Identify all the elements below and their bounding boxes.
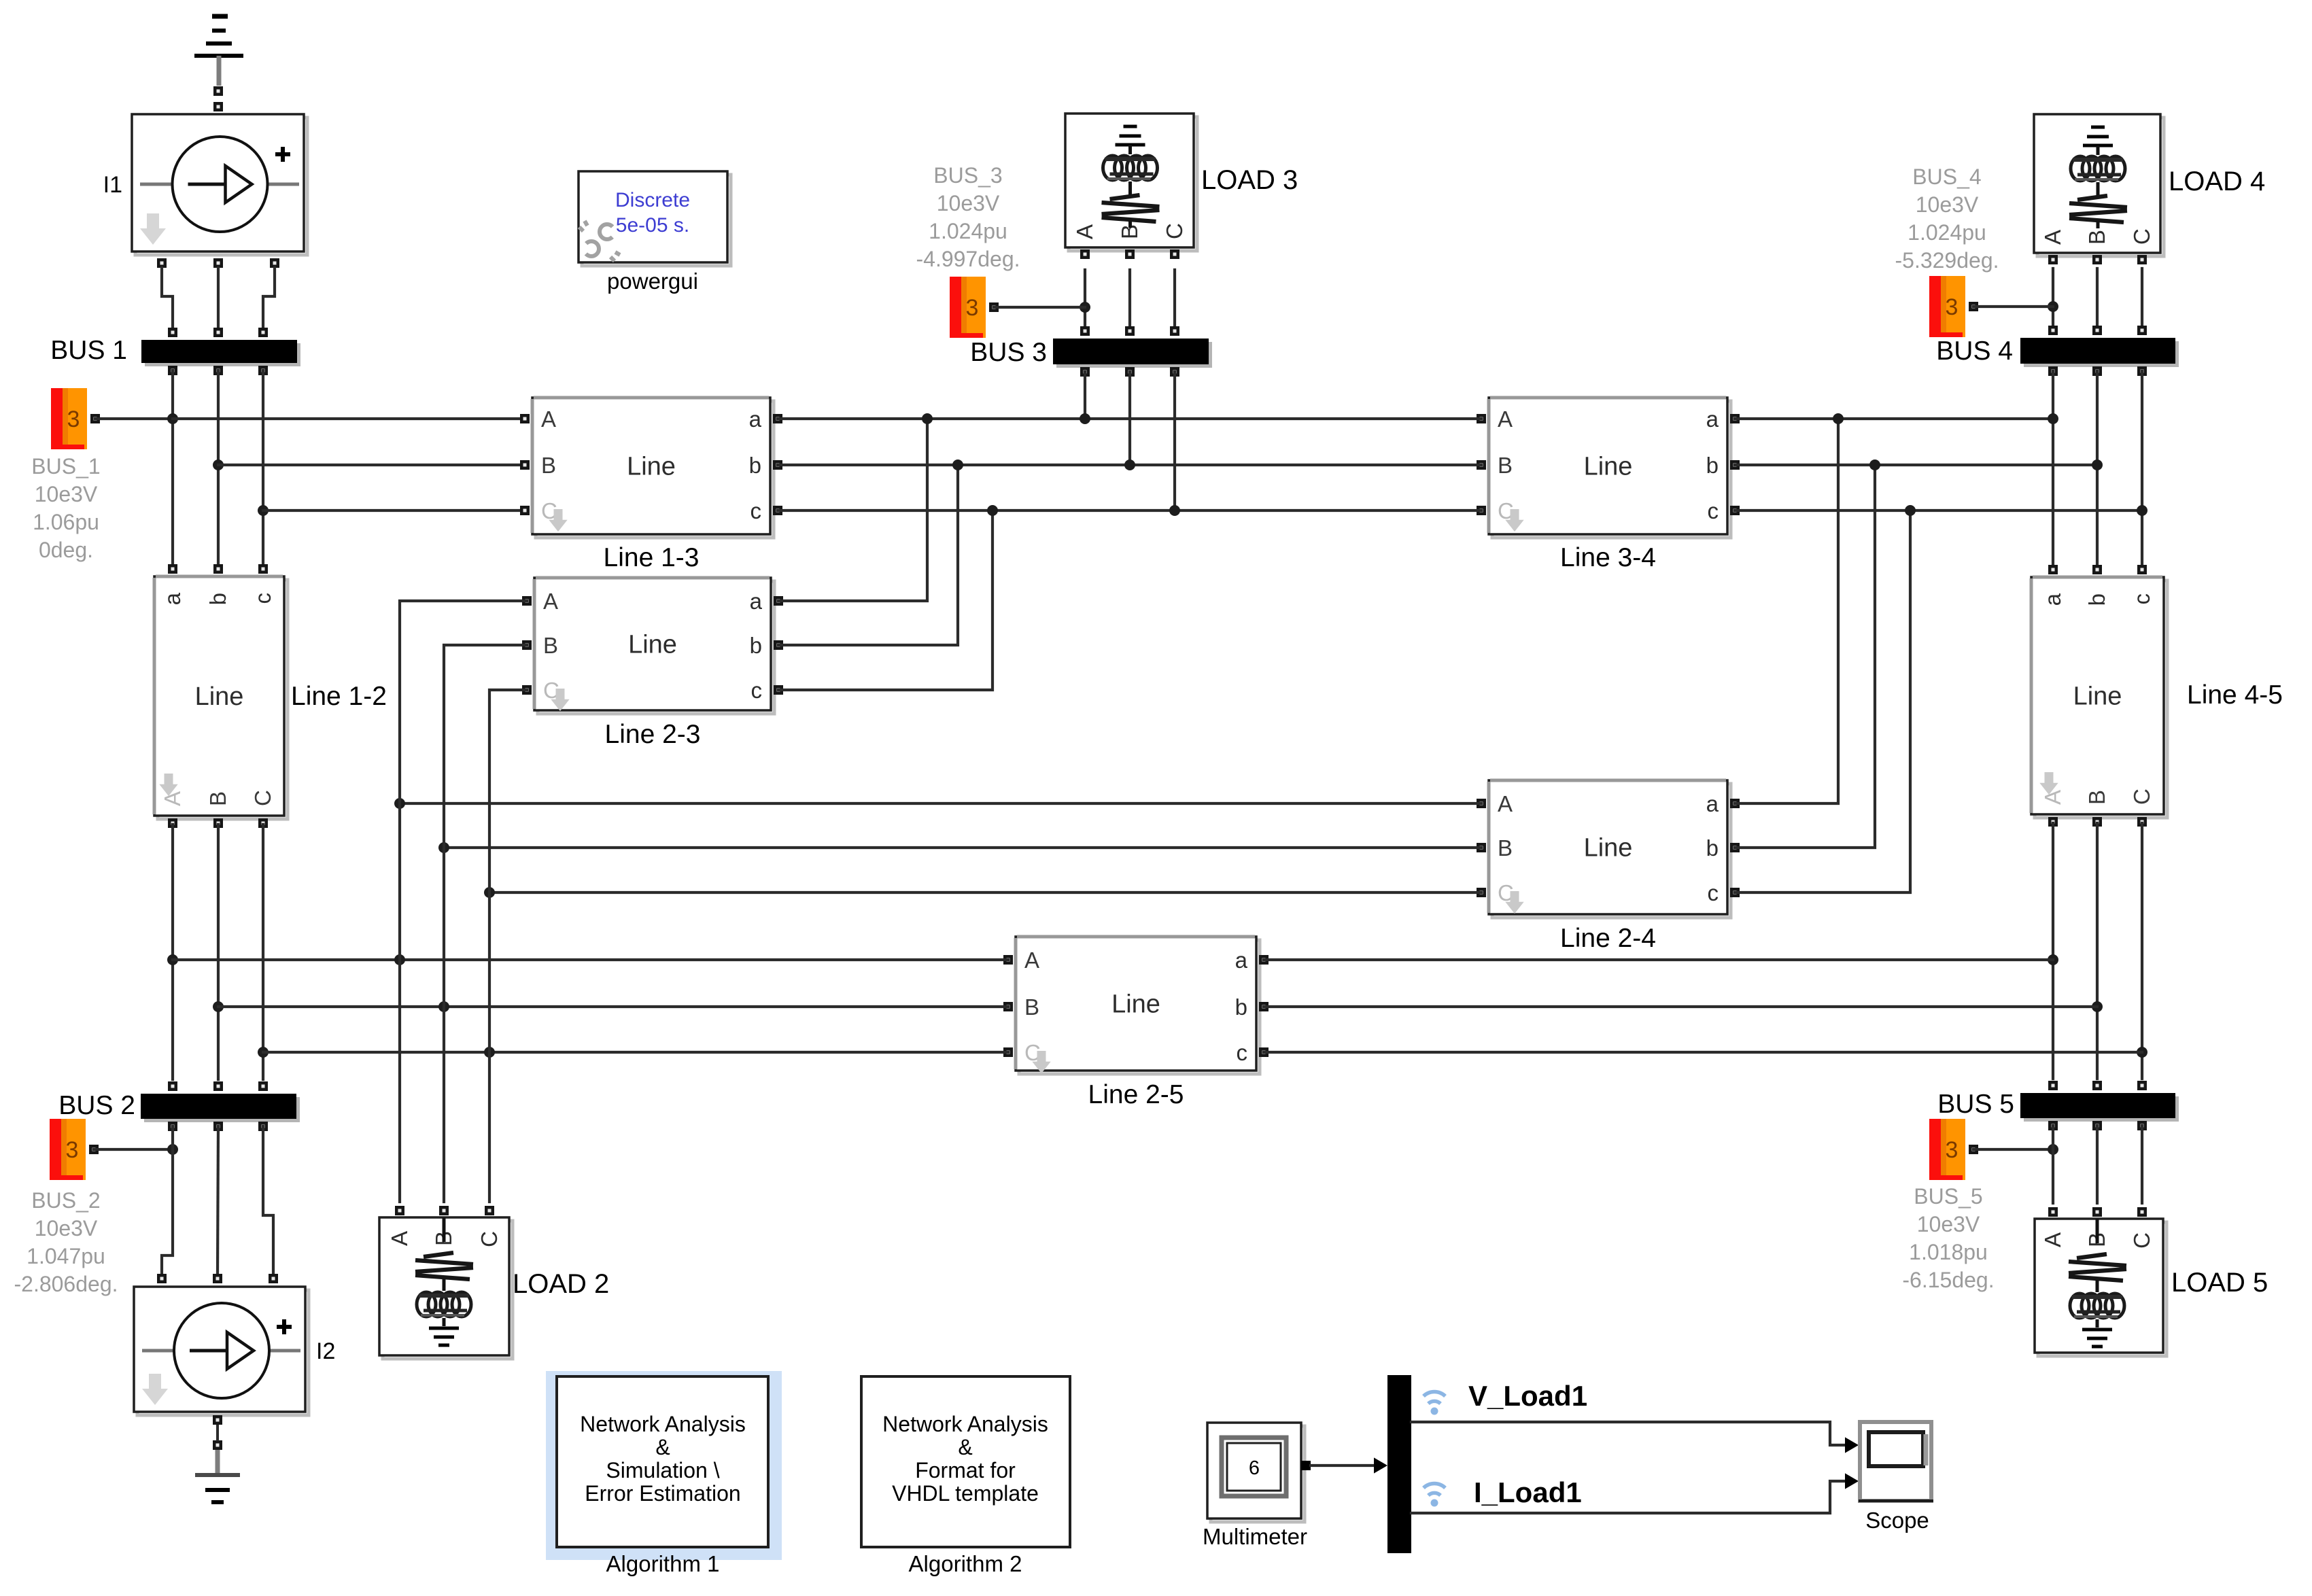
measurement tag 3 BUS_2 — [50, 1119, 99, 1180]
svg-text:C: C — [2129, 228, 2154, 245]
wire Line1-2 A column to BUS 2 — [167, 825, 178, 1079]
wire I1 phase C to BUS 1 — [263, 268, 275, 332]
svg-text:BUS_4: BUS_4 — [1912, 164, 1981, 189]
svg-text:-2.806deg.: -2.806deg. — [14, 1272, 118, 1296]
svg-text:Algorithm 1: Algorithm 1 — [606, 1551, 720, 1576]
wire tag BUS_4 to phase A — [1973, 305, 2053, 308]
svg-text:A: A — [1498, 406, 1513, 432]
wire row B2: feeder to Line 2-4 B — [438, 842, 1481, 853]
svg-text:LOAD 3: LOAD 3 — [1201, 165, 1298, 195]
svg-text:A: A — [160, 791, 185, 806]
svg-text:A: A — [2040, 790, 2065, 805]
svg-text:-5.329deg.: -5.329deg. — [1895, 248, 1999, 273]
demux bar — [1387, 1375, 1411, 1553]
svg-text:c: c — [1708, 498, 1719, 523]
wire row B3: BUS2 column to Line 2-5 B — [218, 1001, 1008, 1012]
svg-text:A: A — [1072, 224, 1097, 239]
wire Line4-5 B column to BUS 5 — [2092, 823, 2103, 1079]
svg-text:B: B — [1498, 453, 1513, 478]
wire I_Load1 to Scope — [1411, 1473, 1859, 1513]
wire row C3: BUS2 column to Line 2-5 C — [263, 1047, 1008, 1058]
transmission line block Line 1-3 — [520, 398, 782, 572]
svg-text:A: A — [2040, 1232, 2065, 1247]
wire LOAD3 A to BUS 3 — [1080, 270, 1090, 328]
svg-text:Line: Line — [1584, 453, 1633, 481]
wire row c: Line 1-3 c to Line 3-4 C — [778, 509, 1481, 512]
svg-text:A: A — [541, 406, 556, 432]
svg-text:Error Estimation: Error Estimation — [585, 1481, 740, 1506]
wire row A3: BUS2 column to Line 2-5 A — [173, 954, 1008, 965]
wire BUS3 b drop to row b — [1124, 372, 1135, 470]
svg-text:b: b — [205, 593, 230, 605]
wire tag BUS_3 to phase A — [994, 306, 1085, 309]
svg-text:3: 3 — [1946, 1137, 1959, 1163]
wire feeder C: Line2-3 C down to LOAD 2 — [489, 690, 527, 1202]
wire row c: Line 3-4 c to BUS4 column — [1735, 509, 2142, 512]
wire BUS2 phase B to source I2 — [218, 1126, 218, 1274]
svg-text:LOAD 5: LOAD 5 — [2171, 1268, 2268, 1298]
wire Line 2-4 c riser to row c — [1735, 505, 1916, 892]
svg-text:Discrete: Discrete — [615, 189, 690, 211]
svg-text:3: 3 — [67, 406, 80, 432]
wire row C: BUS1 to Line 1-3 C — [263, 509, 525, 512]
svg-text:Network Analysis: Network Analysis — [882, 1412, 1048, 1436]
Multimeter block — [1203, 1423, 1311, 1549]
transmission line block Line 4-5 (vertical) — [2031, 565, 2283, 827]
svg-text:-6.15deg.: -6.15deg. — [1902, 1268, 1994, 1292]
svg-text:C: C — [2129, 1232, 2154, 1249]
svg-text:c: c — [1237, 1040, 1248, 1065]
wire V_Load1 to Scope — [1411, 1422, 1859, 1453]
wire row b: Line 1-3 b to Line 3-4 B — [778, 464, 1481, 466]
measurement tag 3 BUS_4 — [1929, 276, 1978, 337]
svg-text:Line 3-4: Line 3-4 — [1560, 543, 1656, 572]
wire BUS4 a column to Line 4-5 — [2048, 371, 2058, 570]
svg-text:b: b — [1235, 994, 1247, 1020]
svg-text:Line: Line — [1584, 834, 1633, 863]
bus bar BUS 4 — [1936, 326, 2179, 376]
wire Line1-2 C column to BUS 2 — [258, 825, 269, 1079]
svg-text:a: a — [1706, 406, 1719, 432]
bus bar BUS 2 — [58, 1081, 300, 1131]
powergui block — [579, 171, 731, 294]
wire LOAD4 A to BUS 4 — [2048, 268, 2058, 328]
svg-text:Format for: Format for — [915, 1458, 1016, 1482]
transmission line block Line 1-2 (vertical) — [154, 564, 387, 828]
wire row A2: feeder to Line 2-4 A — [394, 798, 1481, 809]
svg-text:C: C — [250, 790, 275, 806]
wire I1 phase B to BUS 1 — [217, 268, 220, 332]
svg-text:V_Load1: V_Load1 — [1468, 1380, 1587, 1412]
svg-text:Line: Line — [627, 453, 676, 481]
svg-text:&: & — [958, 1435, 972, 1459]
wire BUS2 phase C to source I2 — [263, 1126, 273, 1274]
svg-text:Line: Line — [628, 631, 677, 659]
svg-text:-4.997deg.: -4.997deg. — [916, 247, 1020, 271]
svg-text:A: A — [1024, 948, 1039, 973]
svg-text:b: b — [2084, 593, 2109, 606]
wire Multimeter to demux — [1311, 1457, 1387, 1473]
wire BUS2 phase A to source I2 — [162, 1126, 173, 1274]
wire row B: BUS1 to Line 1-3 B — [218, 464, 525, 466]
svg-text:A: A — [2040, 230, 2065, 245]
wire Line 2-3 c riser to row c — [778, 505, 998, 690]
svg-text:3: 3 — [66, 1137, 79, 1163]
svg-text:b: b — [750, 633, 762, 658]
label BUS_5 voltage readout — [1902, 1184, 1994, 1292]
svg-text:BUS 1: BUS 1 — [50, 336, 127, 365]
svg-text:10e3V: 10e3V — [1917, 1212, 1980, 1236]
wire LOAD4 B to BUS 4 — [2096, 268, 2099, 328]
svg-text:Line: Line — [195, 682, 244, 711]
svg-text:Algorithm 2: Algorithm 2 — [909, 1551, 1022, 1576]
svg-text:1.024pu: 1.024pu — [929, 219, 1007, 243]
svg-text:LOAD 2: LOAD 2 — [513, 1269, 609, 1299]
svg-text:Line 2-4: Line 2-4 — [1560, 924, 1656, 953]
svg-text:C: C — [477, 1231, 502, 1247]
wire BUS1 phase c column — [262, 370, 264, 569]
transmission line block Line 2-5 — [1003, 937, 1269, 1109]
load block LOAD 3 — [1065, 114, 1298, 259]
svg-text:BUS_2: BUS_2 — [31, 1188, 100, 1213]
wire Line4-5 A column to BUS 5 — [2048, 823, 2058, 1079]
wire Line 2-5 b output to BUS5 column — [1264, 1005, 2097, 1008]
svg-text:I_Load1: I_Load1 — [1474, 1476, 1582, 1508]
svg-text:10e3V: 10e3V — [35, 1216, 98, 1241]
svg-text:a: a — [1706, 791, 1719, 816]
wire LOAD3 B to BUS 3 — [1128, 270, 1131, 328]
measurement tag 3 BUS_3 — [950, 277, 999, 338]
wire Line 2-3 b riser to row b — [778, 459, 963, 645]
svg-text:1.018pu: 1.018pu — [1909, 1240, 1988, 1264]
AC current source I1 — [103, 114, 307, 268]
wire row a: Line 3-4 a to BUS4 column — [1735, 417, 2053, 420]
svg-text:a: a — [1235, 948, 1248, 973]
svg-text:Network Analysis: Network Analysis — [580, 1412, 746, 1436]
svg-text:Line 2-3: Line 2-3 — [605, 720, 701, 749]
label I_Load1 — [1474, 1476, 1582, 1508]
svg-text:I1: I1 — [103, 172, 122, 198]
annotation block Algorithm 2 — [861, 1376, 1070, 1576]
svg-text:BUS 4: BUS 4 — [1936, 336, 2013, 366]
svg-text:10e3V: 10e3V — [1916, 192, 1979, 217]
svg-text:b: b — [1706, 835, 1719, 861]
svg-text:Line: Line — [2073, 682, 2122, 711]
svg-text:LOAD 4: LOAD 4 — [2169, 167, 2265, 196]
svg-text:c: c — [2129, 593, 2154, 605]
wire BUS4 b column to Line 4-5 — [2092, 371, 2103, 570]
svg-text:&: & — [655, 1435, 670, 1459]
bus bar BUS 5 — [1937, 1081, 2179, 1130]
svg-text:Simulation \: Simulation \ — [606, 1458, 719, 1482]
measurement tag 3 BUS_5 — [1929, 1119, 1978, 1180]
wire LOAD4 C to BUS 4 — [2141, 268, 2143, 328]
svg-text:powergui: powergui — [607, 268, 698, 294]
bus bar BUS 3 — [970, 326, 1212, 377]
svg-text:Line 2-5: Line 2-5 — [1088, 1080, 1184, 1109]
wire BUS1 phase a column — [171, 370, 174, 569]
label BUS_2 voltage readout — [14, 1188, 118, 1296]
svg-text:BUS_3: BUS_3 — [933, 163, 1002, 188]
svg-text:1.06pu: 1.06pu — [33, 510, 99, 534]
svg-text:BUS 5: BUS 5 — [1937, 1090, 2014, 1119]
wire Line 2-4 a riser to row a — [1735, 413, 1844, 803]
svg-text:b: b — [749, 453, 761, 478]
wire Line1-2 B column to BUS 2 — [213, 825, 224, 1079]
label BUS_3 voltage readout — [916, 163, 1020, 271]
svg-text:1.047pu: 1.047pu — [27, 1244, 105, 1268]
transmission line block Line 3-4 — [1477, 398, 1740, 572]
svg-text:BUS 3: BUS 3 — [970, 338, 1047, 367]
svg-text:a: a — [160, 592, 185, 605]
svg-text:B: B — [2084, 230, 2109, 245]
wire BUS5 phase B to LOAD 5 — [2096, 1126, 2099, 1203]
node A1 junction — [167, 413, 178, 424]
annotation block Algorithm 1 (selected) — [546, 1371, 782, 1576]
svg-text:c: c — [250, 593, 275, 604]
wire row C2: feeder to Line 2-4 C — [484, 887, 1481, 898]
wire LOAD3 C to BUS 3 — [1173, 270, 1176, 328]
svg-text:a: a — [2040, 593, 2065, 606]
svg-text:0deg.: 0deg. — [39, 538, 93, 562]
svg-text:Scope: Scope — [1865, 1508, 1929, 1533]
wire feeder A: Line2-3 A down to LOAD 2 — [400, 601, 527, 1202]
wire Line 2-5 a output to BUS5 column — [1264, 958, 2053, 961]
wire row A: BUS1 to Line 1-3 A — [173, 417, 525, 420]
wire Line 2-4 b riser to row b — [1735, 459, 1880, 848]
wire tag BUS_2 to phase A — [94, 1144, 178, 1155]
svg-text:10e3V: 10e3V — [937, 191, 1000, 215]
wire I1 phase A to BUS 1 — [162, 268, 173, 332]
wire BUS4 c column to Line 4-5 — [2137, 371, 2147, 570]
svg-text:Line: Line — [1111, 990, 1160, 1019]
wire Line 2-5 c output to BUS5 column — [1264, 1051, 2142, 1054]
ground G1 above source I1 — [194, 16, 243, 111]
wifi tag icon V_Load1 — [1424, 1392, 1445, 1415]
svg-text:A: A — [543, 589, 558, 614]
svg-text:3: 3 — [1946, 294, 1959, 320]
svg-text:10e3V: 10e3V — [35, 482, 98, 506]
svg-text:Line 1-3: Line 1-3 — [604, 543, 700, 572]
svg-text:c: c — [1708, 880, 1719, 905]
svg-text:Multimeter: Multimeter — [1203, 1524, 1307, 1549]
svg-text:b: b — [1706, 453, 1719, 478]
svg-text:c: c — [750, 498, 762, 523]
label V_Load1 — [1468, 1380, 1587, 1412]
svg-text:A: A — [1498, 791, 1513, 816]
AC current source I2 — [134, 1274, 335, 1415]
svg-text:Line 4-5: Line 4-5 — [2187, 680, 2283, 710]
svg-text:C: C — [2129, 788, 2154, 805]
wire BUS3 c drop to row c — [1169, 372, 1180, 516]
load block LOAD 2 — [379, 1206, 609, 1359]
wire tag BUS_1 to node A1 — [95, 417, 173, 420]
ground G2 below source I2 — [195, 1415, 240, 1502]
svg-text:I2: I2 — [316, 1338, 335, 1364]
Scope block — [1859, 1422, 1933, 1533]
svg-text:B: B — [543, 633, 558, 658]
svg-text:BUS_1: BUS_1 — [31, 454, 100, 479]
svg-text:Line 1-2: Line 1-2 — [291, 682, 387, 711]
transmission line block Line 2-3 — [522, 578, 783, 749]
wire BUS5 phase A to LOAD 5 — [2052, 1126, 2054, 1203]
svg-text:B: B — [2084, 790, 2109, 805]
wire BUS1 phase b column — [217, 370, 220, 569]
wire row a: Line 1-3 a to Line 3-4 A — [778, 417, 1481, 420]
wire row b: Line 3-4 b to BUS4 column — [1735, 464, 2097, 466]
svg-text:B: B — [1498, 835, 1513, 861]
label BUS_1 voltage readout — [31, 454, 100, 562]
svg-text:6: 6 — [1249, 1457, 1260, 1479]
wire feeder B: Line2-3 B down to LOAD 2 — [444, 645, 527, 1202]
svg-text:3: 3 — [966, 295, 979, 321]
svg-text:5e-05 s.: 5e-05 s. — [616, 214, 689, 237]
wire Line4-5 C column to BUS 5 — [2137, 823, 2147, 1079]
node C1 junction — [258, 505, 269, 516]
wire BUS5 phase C to LOAD 5 — [2141, 1126, 2143, 1203]
svg-text:B: B — [541, 453, 556, 478]
load block LOAD 4 — [2034, 114, 2265, 264]
wire BUS3 a drop to row a — [1080, 372, 1090, 424]
svg-text:a: a — [749, 406, 762, 432]
measurement tag 3 BUS_1 — [51, 388, 100, 449]
svg-text:c: c — [751, 678, 763, 703]
bus bar BUS 1 — [50, 328, 300, 375]
svg-text:A: A — [387, 1231, 412, 1246]
node B1 junction — [213, 459, 224, 470]
svg-text:BUS_5: BUS_5 — [1914, 1184, 1982, 1209]
svg-text:B: B — [205, 791, 230, 806]
wifi tag icon I_Load1 — [1424, 1484, 1445, 1507]
transmission line block Line 2-4 — [1477, 780, 1740, 953]
svg-text:a: a — [750, 589, 763, 614]
svg-text:VHDL template: VHDL template — [892, 1481, 1039, 1506]
label BUS_4 voltage readout — [1895, 164, 1999, 273]
svg-text:C: C — [1162, 223, 1187, 239]
svg-text:1.024pu: 1.024pu — [1908, 220, 1986, 245]
wire tag BUS_5 to phase A — [1973, 1144, 2058, 1155]
svg-text:B: B — [1024, 994, 1039, 1020]
load block LOAD 5 — [2035, 1207, 2268, 1356]
svg-text:BUS 2: BUS 2 — [58, 1091, 135, 1120]
wire Line 2-3 a riser to row a — [778, 413, 933, 601]
